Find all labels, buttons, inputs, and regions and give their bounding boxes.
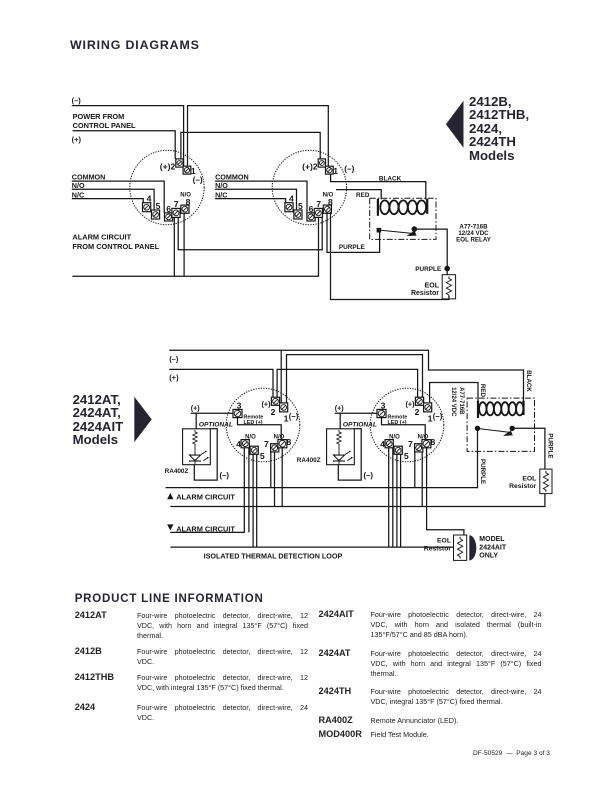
callout arrow right-pointing — [134, 397, 151, 442]
wire COMMON to U1-6 — [72, 181, 164, 213]
svg-text:FROM CONTROL PANEL: FROM CONTROL PANEL — [72, 242, 159, 251]
wire RA400Z RA1 return — [194, 429, 217, 480]
svg-text:1: 1 — [333, 166, 338, 176]
wire relay K2 switch to EOL resistor R2 — [512, 428, 545, 469]
svg-text:7: 7 — [264, 439, 269, 449]
svg-text:(+): (+) — [335, 404, 345, 413]
svg-text:N/O: N/O — [245, 435, 256, 441]
terminal U3-5 — [250, 446, 258, 454]
wire (+) to RA2 pin3 — [335, 412, 377, 414]
svg-text:2: 2 — [271, 407, 276, 417]
svg-text:N/O: N/O — [274, 435, 285, 441]
wire (+) bus from control panel to detector1 pin2 — [73, 131, 176, 159]
terminal U1-5 — [152, 210, 160, 219]
terminal U1-6 — [165, 213, 173, 221]
svg-text:4: 4 — [236, 439, 241, 449]
svg-text:MODEL: MODEL — [479, 536, 505, 543]
svg-text:5: 5 — [156, 201, 161, 211]
terminal U4-4 — [385, 440, 393, 448]
terminal U1-4 — [143, 203, 151, 212]
wire N/O to U2-5 — [215, 189, 296, 210]
relay K1 switch left contact — [377, 228, 382, 233]
svg-text:6: 6 — [166, 204, 171, 214]
wire thermal pair line1 to U3-4 — [170, 448, 244, 533]
wire N/O to U1-5 — [72, 189, 154, 210]
detector U1 (smoke detector head) outline — [130, 150, 204, 224]
terminal U3-4 — [241, 440, 249, 448]
wire alarm line B from panel to U2-7 — [72, 217, 318, 276]
terminal U4-8 — [422, 440, 431, 448]
svg-text:N/O: N/O — [389, 435, 400, 441]
svg-text:N/O: N/O — [180, 192, 191, 198]
RA400Z RA1 LED — [189, 446, 209, 465]
wire (+) to RA1 pin3 — [191, 412, 233, 414]
section heading PRODUCT LINE INFORMATION — [75, 593, 264, 605]
svg-text:2424AIT: 2424AIT — [479, 544, 507, 551]
relay K2 A77-716B dashed outline — [467, 398, 534, 451]
svg-text:7: 7 — [408, 439, 413, 449]
svg-text:ALARM CIRCUIT: ALARM CIRCUIT — [72, 232, 131, 241]
terminal U1-1 — [183, 166, 191, 174]
svg-text:(–): (–) — [220, 471, 230, 480]
terminal U4-5 — [394, 446, 402, 454]
detector U3 outline — [226, 388, 300, 462]
footer — [473, 750, 550, 757]
svg-text:Resistor: Resistor — [424, 545, 452, 552]
EOL resistor R1 element — [446, 277, 451, 298]
svg-text:N/O: N/O — [215, 181, 228, 190]
relay K1 switch right contact — [412, 227, 417, 232]
wire (-) link U3-1 to U4-1 — [287, 355, 423, 403]
EOL resistor R2 element — [543, 471, 548, 492]
svg-text:8: 8 — [186, 197, 191, 207]
svg-text:EOL RELAY: EOL RELAY — [456, 237, 492, 244]
terminal U4-2 — [415, 397, 423, 405]
svg-text:5: 5 — [260, 451, 265, 461]
wire N/C to U2-4 — [215, 199, 286, 203]
wire U3-7 drop to alarm upper — [270, 452, 272, 488]
terminal U1-7 — [172, 208, 180, 217]
svg-text:EOL: EOL — [437, 538, 451, 545]
svg-text:(–): (–) — [289, 412, 299, 421]
EOL resistor R3 element — [458, 537, 463, 559]
terminal U2-4 — [285, 203, 293, 212]
relay K2 switch left contact — [475, 426, 479, 430]
svg-text:ALARM CIRCUIT: ALARM CIRCUIT — [176, 493, 235, 502]
wire COMMON to U2-6 — [215, 181, 307, 213]
svg-text:Resistor: Resistor — [411, 290, 439, 297]
wire (-) link detector1 pin1 to detector2 pin1 — [188, 106, 329, 167]
models list left (diagram 2) — [73, 393, 124, 447]
terminal U3-7 — [271, 444, 279, 452]
page heading WIRING DIAGRAMS — [70, 38, 200, 52]
svg-text:RED: RED — [356, 192, 370, 199]
annunciator RA400Z RA1 box — [183, 429, 211, 465]
svg-text:(–): (–) — [193, 175, 203, 184]
wire PURPLE U2-8 to relay switch — [327, 212, 380, 253]
svg-text:4: 4 — [147, 194, 152, 204]
terminal U3-3 — [233, 409, 242, 417]
terminal U2-5 — [294, 210, 302, 219]
svg-text:ONLY: ONLY — [479, 553, 498, 560]
wire U3-5 drop b — [256, 454, 258, 547]
wire EOL return U2-8 to EOL resistor — [331, 212, 449, 300]
terminal U1-2 — [176, 159, 183, 167]
svg-text:2: 2 — [415, 407, 420, 417]
wire U4-5 drop b — [400, 454, 402, 547]
wire U3-5 drop a — [252, 454, 254, 547]
wire (+) link U3-2 to U4-2 — [277, 369, 418, 397]
wire RED to relay coil — [336, 190, 381, 200]
svg-text:(+): (+) — [191, 404, 201, 413]
EOL resistor R1 box — [442, 275, 455, 299]
terminal U3-1 — [280, 403, 288, 412]
terminal U2-8 — [323, 205, 331, 213]
wire U3-4 second drop to thermal line — [248, 448, 250, 533]
svg-text:5: 5 — [298, 201, 303, 211]
terminal U2-1 — [326, 166, 334, 174]
wire (+) drop to RA400Z RA1 — [195, 413, 197, 429]
relay K1 switch lever — [381, 230, 412, 233]
relay K1 switch arrow — [407, 231, 417, 236]
svg-text:PURPLE: PURPLE — [547, 433, 554, 458]
svg-text:3: 3 — [381, 401, 386, 411]
terminal U4-1 — [424, 403, 432, 412]
wire U4-3 to U4-8 internal — [382, 418, 426, 440]
svg-text:RA400Z: RA400Z — [165, 468, 189, 475]
symbol down-triangle alarm — [167, 524, 173, 530]
terminal U2-6 — [307, 213, 315, 221]
svg-text:OPTIONAL: OPTIONAL — [343, 422, 377, 429]
svg-text:N/C: N/C — [72, 190, 84, 199]
wire U1-8 drop to alarm line B — [183, 213, 185, 276]
svg-text:(+)2: (+)2 — [302, 161, 318, 171]
terminal U4-3 — [377, 409, 386, 417]
svg-text:3: 3 — [237, 401, 242, 411]
relay K2 switch right contact — [510, 426, 514, 430]
svg-text:A77-716B: A77-716B — [458, 387, 464, 415]
wire RA400Z RA2 return — [338, 429, 361, 480]
wire U3-7b drop to alarm lower — [274, 452, 276, 507]
svg-text:(–): (–) — [344, 165, 354, 174]
svg-text:8: 8 — [431, 437, 436, 447]
wire alarm line A U1-7 to U2-7 — [178, 217, 322, 249]
symbol up-triangle alarm — [167, 493, 173, 499]
terminal U3-8 — [278, 440, 287, 448]
wire U1-7 drop to alarm line B — [173, 217, 175, 276]
wire RED U4-1 to relay coil — [430, 383, 478, 403]
svg-text:PURPLE: PURPLE — [339, 244, 366, 251]
svg-text:8: 8 — [328, 197, 333, 207]
RA400Z RA2 LED — [333, 446, 353, 465]
wire PURPLE-left relay switch to alarm bus — [166, 431, 478, 488]
terminal U1-8 — [181, 205, 189, 213]
svg-text:12/24 VDC: 12/24 VDC — [450, 387, 456, 417]
svg-text:4: 4 — [380, 439, 385, 449]
svg-text:CONTROL PANEL: CONTROL PANEL — [73, 121, 136, 130]
relay K2 coil — [478, 401, 524, 418]
svg-text:ISOLATED THERMAL DETECTION LOO: ISOLATED THERMAL DETECTION LOOP — [204, 552, 343, 561]
svg-text:OPTIONAL: OPTIONAL — [199, 422, 233, 429]
wire (-) bus drop to U3-1 — [280, 350, 282, 403]
relay K1 coil — [378, 199, 427, 216]
wire (+) bus to detector U3 pin2 — [169, 369, 273, 397]
svg-text:N/O: N/O — [418, 435, 429, 441]
wire (-) bus from control panel to detector1 pin1 — [72, 106, 184, 167]
svg-text:EOL: EOL — [425, 282, 440, 289]
svg-text:(–): (–) — [364, 471, 374, 480]
svg-text:(+)2: (+)2 — [160, 161, 176, 171]
svg-text:POWER FROM: POWER FROM — [73, 112, 125, 121]
product table left column — [75, 0, 309, 1]
terminal U3-2 — [271, 397, 279, 405]
terminal U2-7 — [314, 208, 322, 217]
annunciator RA400Z RA2 box — [327, 429, 355, 465]
svg-text:N/C: N/C — [215, 190, 227, 199]
svg-text:RED: RED — [479, 384, 486, 398]
svg-text:8: 8 — [287, 437, 292, 447]
svg-text:N/O: N/O — [72, 181, 85, 190]
wire isolated thermal loop bus — [170, 546, 453, 548]
svg-text:EOL: EOL — [522, 475, 536, 482]
wire U4-7 drop to alarm upper — [414, 452, 416, 488]
wire U4-7b drop to alarm lower — [421, 452, 423, 507]
svg-text:BLACK: BLACK — [525, 370, 532, 392]
svg-text:4: 4 — [289, 194, 294, 204]
svg-text:PURPLE: PURPLE — [479, 459, 486, 484]
wire U4-5 drop a — [396, 454, 398, 547]
EOL resistor R2 box — [540, 469, 552, 494]
svg-text:7: 7 — [174, 199, 179, 209]
wire (+) drop to RA400Z RA2 — [339, 413, 341, 429]
detector U2 (smoke detector head) outline — [272, 150, 346, 224]
svg-text:N/O: N/O — [323, 192, 334, 198]
wire alarm lower bus to EOL resistor — [170, 494, 545, 507]
models list right (diagram 1) — [469, 95, 529, 163]
svg-text:PURPLE: PURPLE — [415, 266, 442, 273]
relay K1 A77-716B dashed outline — [370, 198, 436, 239]
svg-text:(–): (–) — [169, 355, 179, 364]
wire U4-4 drop b — [392, 448, 394, 547]
terminal U2-2 — [318, 159, 325, 167]
svg-text:(+): (+) — [169, 373, 179, 382]
EOL resistor R3 box — [454, 535, 467, 560]
wire U4-8 drop to EOL resistor R3 — [427, 448, 464, 535]
wire (+) link detector1 pin2 to detector2 pin2 — [181, 132, 320, 159]
relay K2 switch lever — [479, 429, 509, 433]
svg-text:7: 7 — [316, 199, 321, 209]
wire U4-4 drop a — [388, 448, 390, 547]
detector U4 outline — [370, 388, 444, 462]
svg-text:RA400Z: RA400Z — [297, 457, 321, 464]
wire U3-8 drop to alarm lower — [281, 448, 283, 507]
svg-text:(–): (–) — [72, 96, 82, 105]
symbol half-moon callout — [469, 535, 476, 560]
wire (-) bus to relay coil (BLACK) — [169, 350, 523, 401]
RA400Z RA2 resistor — [337, 430, 341, 446]
wire N/C to U1-4 — [72, 199, 143, 203]
svg-text:(–): (–) — [433, 412, 443, 421]
wire BLACK U2-1 to relay coil — [331, 174, 426, 199]
RA400Z RA1 resistor — [193, 430, 197, 446]
relay K2 switch arrow — [503, 431, 513, 436]
svg-text:(+): (+) — [72, 135, 82, 144]
terminal U4-7 — [415, 444, 423, 452]
wire relay switch to EOL resistor — [417, 229, 448, 275]
svg-text:Resistor: Resistor — [509, 483, 537, 490]
svg-text:5: 5 — [404, 451, 409, 461]
callout arrow left-pointing — [446, 101, 464, 148]
junction dot PURPLE — [445, 266, 450, 271]
product table right column — [319, 0, 543, 1]
wire U3-3 to U3-8 internal — [238, 418, 282, 440]
svg-text:6: 6 — [309, 204, 314, 214]
